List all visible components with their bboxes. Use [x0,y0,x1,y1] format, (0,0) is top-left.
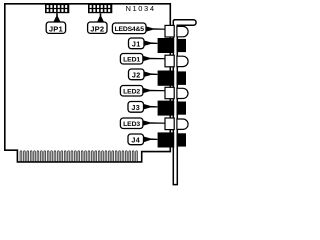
svg-text:J2: J2 [132,70,141,79]
svg-text:LED3: LED3 [123,121,140,128]
label J1 [129,38,158,49]
connector J4 outer part [177,133,187,146]
svg-text:LED2: LED2 [123,89,140,96]
LED3 body [165,118,174,130]
LED pair LEDS4&5 dome [177,26,188,36]
label JP1 [46,13,65,33]
connector J2 body [158,71,175,86]
LED1 body [165,55,174,67]
svg-text:J4: J4 [131,135,140,144]
PCB card outline [5,4,171,162]
svg-text:JP1: JP1 [49,24,64,33]
edge connector gold fingers [20,151,138,162]
label JP2 [88,13,107,33]
connector J3 outer part [177,102,187,115]
connector J3 body [158,101,175,116]
connector J4 body [158,132,175,147]
svg-text:J3: J3 [131,103,140,112]
metal bracket [173,20,196,185]
LED2 body [165,87,174,98]
label J4 [128,134,157,145]
svg-text:JP2: JP2 [90,24,104,33]
label LEDS4&5 [112,23,165,34]
connector J2 outer part [177,71,187,85]
svg-text:J1: J1 [132,39,141,48]
connector J1 body [158,38,175,53]
svg-text:LED1: LED1 [123,57,140,64]
label LED3 [120,118,165,129]
jumper block JP1 [45,3,69,13]
label LED2 [120,86,165,97]
LED1 dome [177,56,188,66]
svg-text:LEDS4&5: LEDS4&5 [115,26,145,33]
svg-text:N1034: N1034 [126,4,156,13]
label J3 [128,102,157,113]
label LED1 [120,54,165,65]
LED2 dome [177,88,188,98]
connector J1 outer part [177,39,187,52]
label J2 [129,69,158,80]
LED pair LEDS4&5 body [165,25,174,37]
LED3 dome [177,119,188,129]
jumper block JP2 [88,3,112,13]
